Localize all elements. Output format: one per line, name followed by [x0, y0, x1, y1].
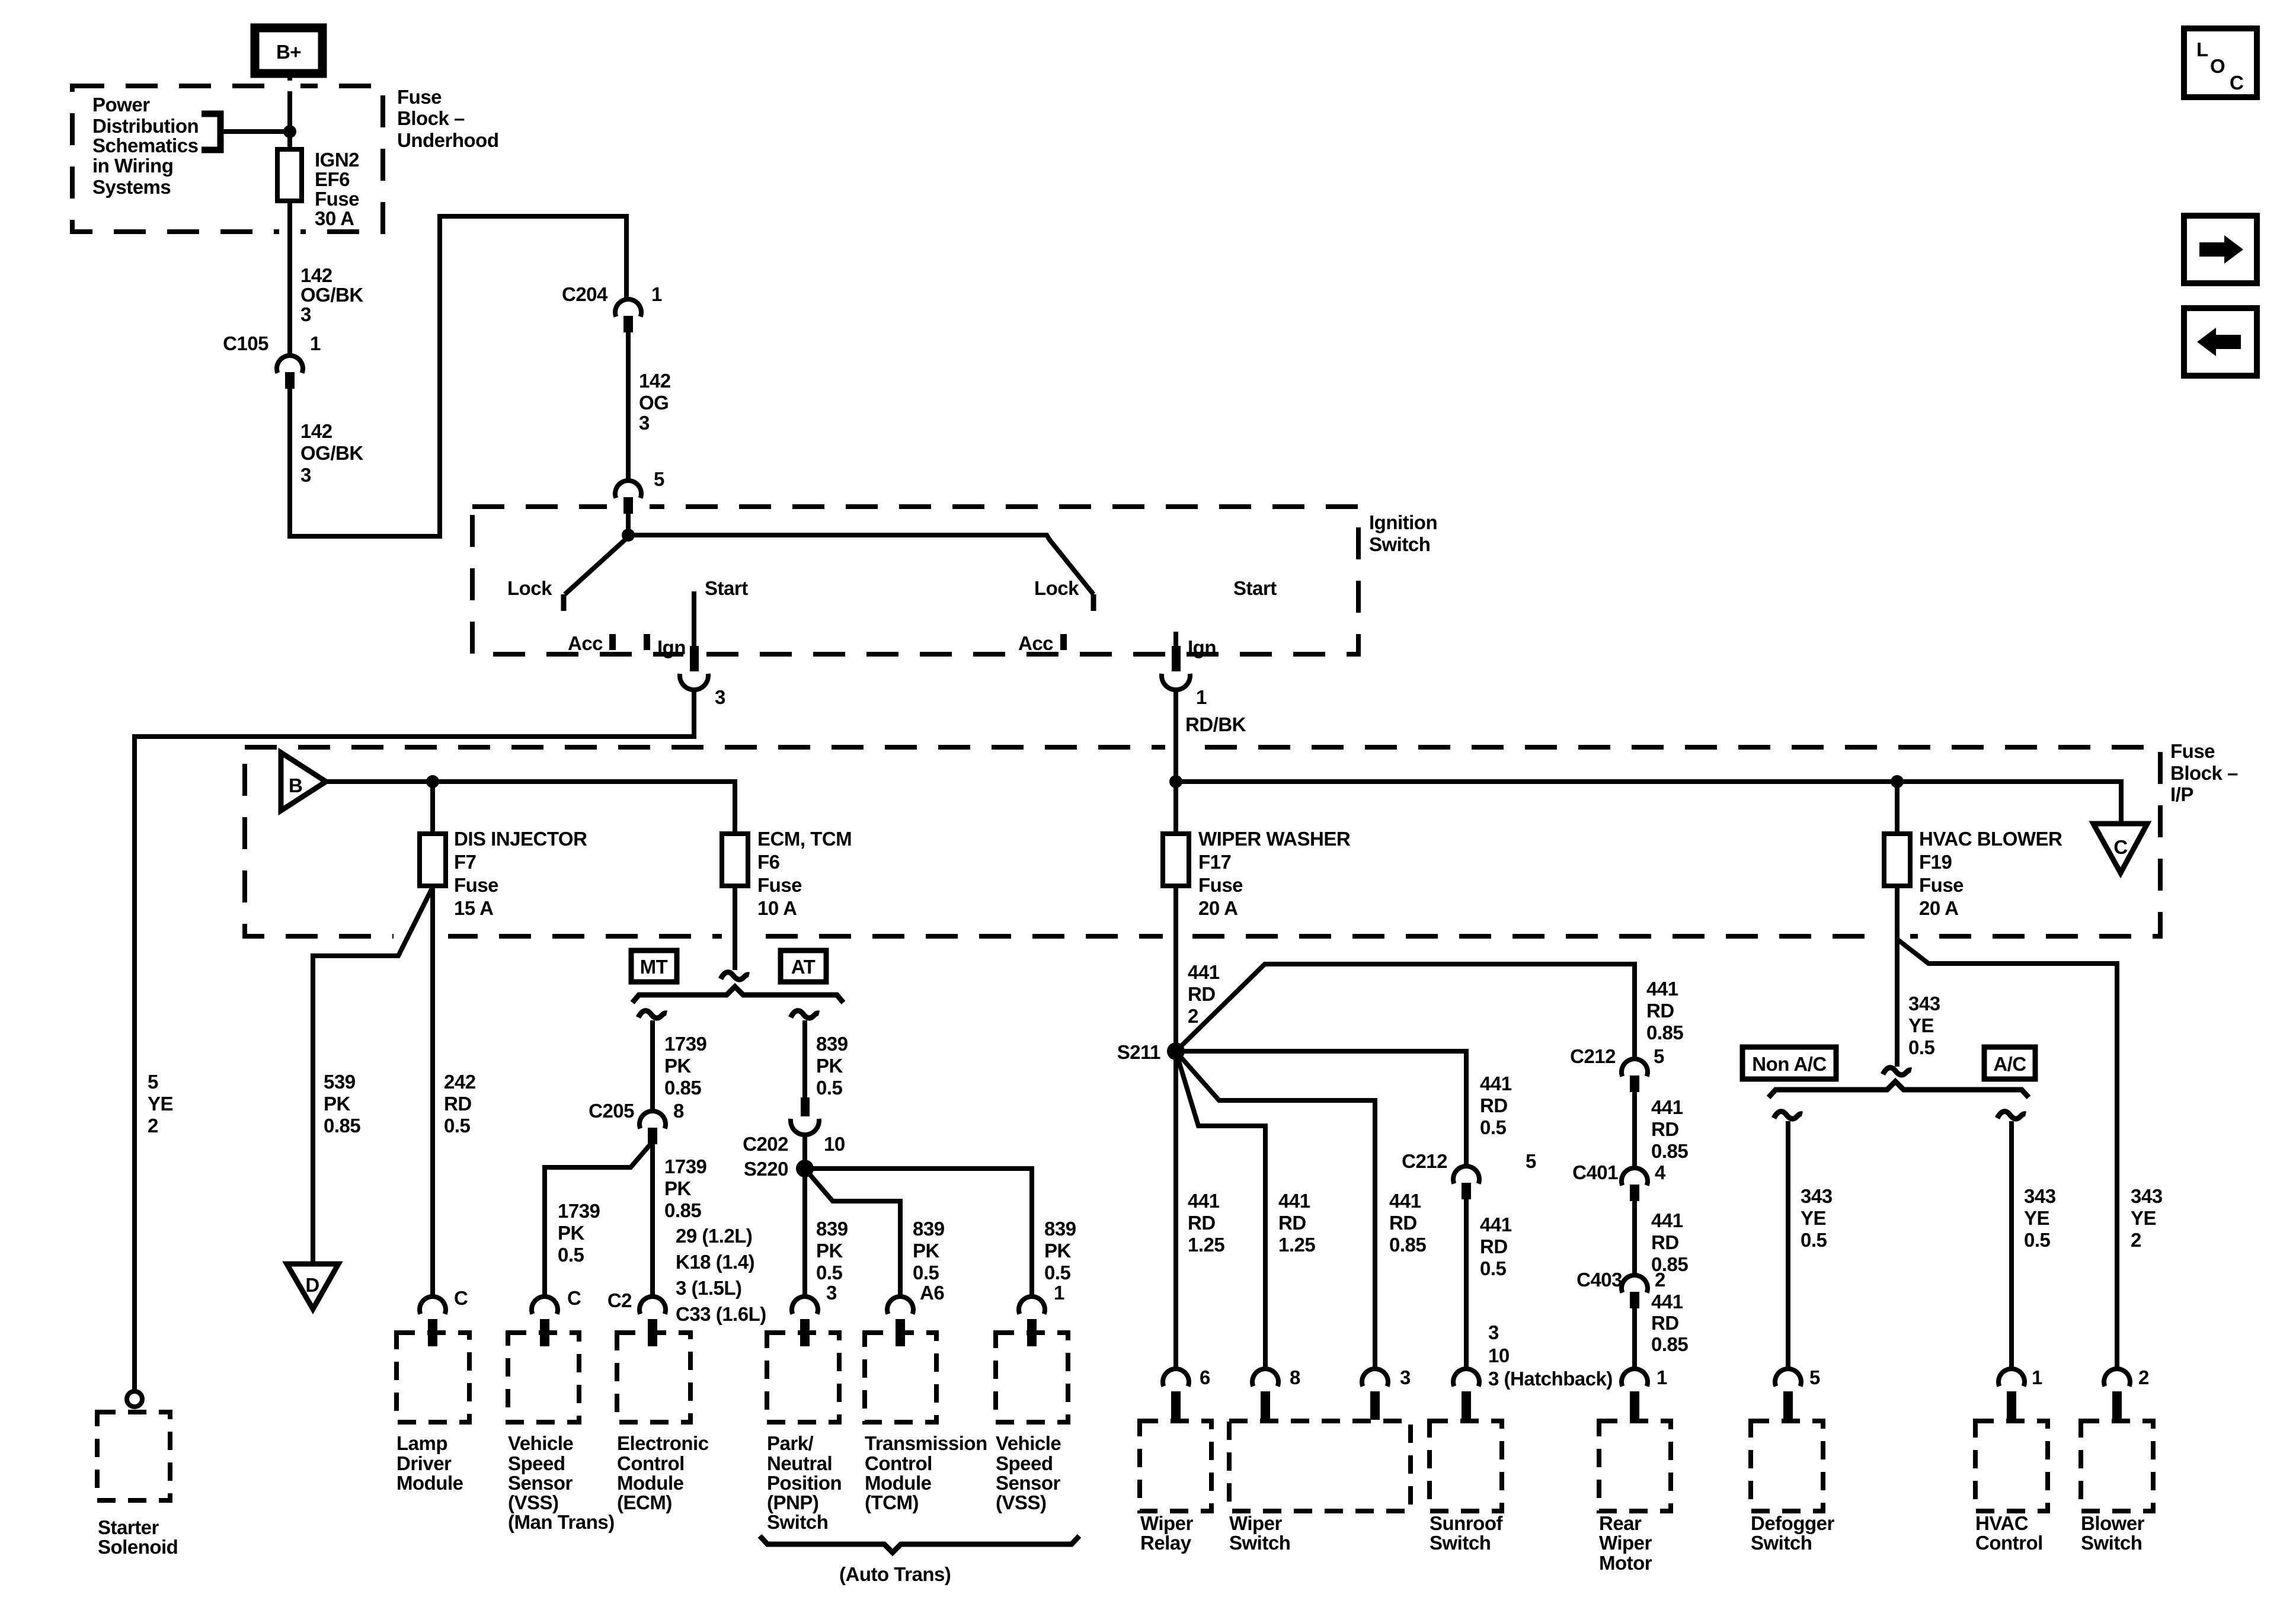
svg-text:B: B	[289, 774, 302, 796]
svg-text:PK: PK	[913, 1240, 940, 1262]
svg-text:441: 441	[1389, 1190, 1421, 1212]
left Acc contact tick	[609, 634, 616, 650]
svg-text:Speed: Speed	[508, 1452, 565, 1474]
svg-text:PK: PK	[816, 1055, 843, 1077]
wire pin5 blade to internal bus	[626, 514, 631, 535]
connector pin 3 below ignition switch	[680, 646, 725, 708]
svg-text:Lamp: Lamp	[396, 1432, 447, 1454]
svg-text:3: 3	[300, 303, 311, 325]
fuse block underhood dashed box	[72, 86, 383, 232]
svg-text:PK: PK	[558, 1222, 585, 1244]
svg-text:F17: F17	[1198, 851, 1231, 873]
svg-text:OG/BK: OG/BK	[300, 284, 363, 306]
svg-text:Wiper: Wiper	[1229, 1512, 1283, 1534]
connector C202 pin 10	[743, 1097, 845, 1155]
junction dot at F17	[1169, 775, 1182, 788]
wire C105 to C204	[290, 216, 626, 536]
connector at HVAC control	[1998, 1369, 2025, 1420]
svg-text:Power: Power	[92, 94, 150, 116]
connector at wiper relay	[1163, 1369, 1189, 1420]
svg-text:0.5: 0.5	[1908, 1036, 1935, 1058]
svg-text:O: O	[2210, 55, 2225, 77]
svg-text:C212: C212	[1402, 1150, 1447, 1172]
connector at sunroof switch	[1453, 1369, 1479, 1420]
svg-text:0.85: 0.85	[1651, 1140, 1688, 1162]
svg-text:0.85: 0.85	[324, 1115, 360, 1137]
option tag box Non A/C	[1742, 1047, 1836, 1079]
white gaps where wires cross ignition switch box	[607, 501, 650, 512]
brace (Auto Trans)	[760, 1536, 1079, 1553]
svg-text:1: 1	[2032, 1366, 2042, 1388]
legend arrow left box	[2184, 308, 2257, 376]
svg-text:1.25: 1.25	[1188, 1234, 1224, 1256]
svg-text:3: 3	[1400, 1366, 1411, 1388]
svg-text:Control: Control	[617, 1452, 685, 1474]
svg-text:242: 242	[444, 1071, 476, 1093]
svg-text:0.5: 0.5	[1480, 1257, 1507, 1279]
wire B+ to fuse IGN2	[287, 73, 292, 149]
svg-text:0.5: 0.5	[558, 1244, 584, 1266]
svg-text:Switch: Switch	[1369, 533, 1430, 555]
wire C204 to ignition switch pin 5	[626, 332, 631, 481]
svg-text:142: 142	[300, 420, 332, 442]
svg-text:3: 3	[1488, 1321, 1499, 1343]
svg-text:RD: RD	[1646, 1000, 1674, 1022]
svg-text:5: 5	[1526, 1150, 1536, 1172]
svg-text:Systems: Systems	[92, 176, 171, 198]
svg-text:Ign: Ign	[1188, 636, 1216, 658]
break hook on Non A/C wire	[1774, 1112, 1802, 1119]
svg-text:839: 839	[913, 1218, 945, 1240]
svg-text:Neutral: Neutral	[767, 1452, 832, 1474]
svg-text:Defogger: Defogger	[1751, 1512, 1835, 1534]
svg-text:6: 6	[1200, 1366, 1210, 1388]
svg-text:Switch: Switch	[2081, 1532, 2142, 1554]
connector pin C at VSS man trans	[532, 1287, 581, 1346]
svg-text:441: 441	[1278, 1190, 1310, 1212]
wire branch F7 to D triangle	[313, 887, 433, 1264]
connector at PNP switch	[792, 1297, 818, 1346]
svg-text:RD: RD	[1651, 1231, 1679, 1253]
splice S211	[1167, 1042, 1185, 1060]
svg-text:441: 441	[1188, 1190, 1220, 1212]
HVAC control dashed box	[1975, 1421, 2048, 1511]
svg-text:Sensor: Sensor	[996, 1472, 1061, 1494]
svg-text:1.25: 1.25	[1278, 1234, 1315, 1256]
option brace Non A/C / A/C	[1769, 1081, 2029, 1097]
svg-text:Block –: Block –	[397, 107, 465, 129]
svg-text:(VSS): (VSS)	[996, 1491, 1047, 1513]
white gaps where wires cross underhood box	[279, 81, 300, 91]
svg-text:F6: F6	[757, 851, 780, 873]
connector C205 pin 8	[589, 1100, 684, 1144]
connector at rear wiper motor	[1622, 1369, 1648, 1420]
junction dot at F19	[1891, 775, 1904, 788]
svg-text:0.5: 0.5	[2024, 1229, 2051, 1251]
wire C212 to sunroof switch	[1464, 1199, 1469, 1370]
svg-text:5: 5	[1654, 1045, 1664, 1067]
VSS auto dashed box	[996, 1333, 1068, 1422]
svg-text:839: 839	[816, 1033, 848, 1055]
svg-text:441: 441	[1651, 1209, 1683, 1231]
svg-text:0.85: 0.85	[1651, 1333, 1688, 1355]
svg-text:Fuse: Fuse	[397, 86, 442, 108]
svg-text:Transmission: Transmission	[865, 1432, 987, 1454]
bracket from note to wire	[202, 114, 220, 150]
svg-text:343: 343	[1801, 1185, 1833, 1207]
svg-text:2: 2	[2138, 1366, 2149, 1388]
rear wiper motor dashed box	[1599, 1421, 1671, 1511]
wire C202 to S220	[802, 1134, 807, 1169]
svg-text:OG/BK: OG/BK	[300, 442, 363, 464]
svg-text:441: 441	[1188, 961, 1220, 983]
svg-text:441: 441	[1480, 1073, 1512, 1094]
svg-text:F7: F7	[454, 851, 477, 873]
svg-text:343: 343	[1908, 993, 1940, 1014]
svg-text:AT: AT	[791, 956, 816, 978]
svg-text:839: 839	[1044, 1218, 1076, 1240]
svg-text:539: 539	[324, 1071, 356, 1093]
svg-text:441: 441	[1651, 1096, 1683, 1118]
wire bracket to B+ feed	[220, 129, 290, 134]
svg-text:Fuse: Fuse	[454, 874, 498, 896]
connector C204 pin 1	[562, 283, 662, 332]
svg-text:Switch: Switch	[767, 1511, 828, 1533]
svg-text:10 A: 10 A	[757, 897, 797, 919]
svg-text:Lock: Lock	[507, 577, 552, 599]
svg-text:Control: Control	[865, 1452, 932, 1474]
white gaps where wires cross I/P fuse block box	[1165, 742, 1187, 753]
svg-text:Acc: Acc	[1018, 632, 1053, 654]
junction dot on B+ feed	[283, 125, 296, 138]
svg-text:A/C: A/C	[1993, 1053, 2026, 1075]
svg-text:C: C	[454, 1287, 468, 1309]
svg-text:(VSS): (VSS)	[508, 1491, 559, 1513]
right Ign contact wire	[1173, 632, 1178, 647]
svg-text:C202: C202	[743, 1133, 788, 1155]
svg-text:(ECM): (ECM)	[617, 1491, 672, 1513]
fuse F6 ECM TCM 10A	[722, 834, 748, 886]
svg-text:1: 1	[310, 332, 321, 354]
wire C205 to C2	[650, 1144, 655, 1298]
svg-text:Sunroof: Sunroof	[1430, 1512, 1503, 1534]
svg-text:(Man Trans): (Man Trans)	[508, 1511, 615, 1533]
svg-text:Electronic: Electronic	[617, 1432, 709, 1454]
wire S220 to TCM pin A6	[807, 1172, 900, 1298]
connector C212 pin 5 (sunroof)	[1402, 1150, 1536, 1199]
connector pin C at lamp driver module	[420, 1287, 468, 1346]
svg-text:142: 142	[639, 370, 671, 392]
svg-text:ECM, TCM: ECM, TCM	[757, 828, 852, 850]
break hook on AT wire	[791, 1011, 819, 1018]
svg-text:RD: RD	[1389, 1212, 1417, 1234]
svg-text:MT: MT	[640, 956, 668, 978]
node D triangle	[287, 1264, 338, 1309]
svg-text:Ign: Ign	[657, 636, 686, 658]
wire A/C option to HVAC control	[2009, 1121, 2014, 1370]
wire pin 1 feed through I/P box edge	[1173, 690, 1178, 782]
wiper switch dashed box	[1229, 1421, 1411, 1511]
svg-text:Speed: Speed	[996, 1452, 1053, 1474]
wire S211 to sunroof C212	[1176, 1051, 1466, 1166]
connector pin 1 below ignition switch	[1162, 646, 1207, 708]
wire Non A/C option to defogger switch	[1786, 1121, 1790, 1370]
svg-text:0.85: 0.85	[1389, 1234, 1426, 1256]
wire F6 to MT/AT option break	[733, 886, 737, 970]
wire S220 to VSS auto pin 1	[805, 1169, 1032, 1298]
svg-text:20 A: 20 A	[1198, 897, 1237, 919]
svg-text:Switch: Switch	[1430, 1532, 1491, 1554]
svg-text:441: 441	[1651, 1291, 1683, 1313]
svg-text:S220: S220	[744, 1158, 788, 1180]
svg-text:C105: C105	[223, 332, 268, 354]
svg-text:EF6: EF6	[315, 168, 350, 190]
svg-text:Fuse: Fuse	[757, 874, 802, 896]
svg-text:S211: S211	[1117, 1041, 1160, 1063]
PNP switch dashed box	[767, 1333, 839, 1422]
svg-text:2: 2	[1655, 1269, 1665, 1291]
svg-text:Schematics: Schematics	[92, 135, 198, 156]
connector pin 5 at ignition switch	[615, 468, 664, 514]
wire F7 to lamp driver module	[430, 886, 435, 1298]
svg-text:343: 343	[2024, 1185, 2056, 1207]
svg-text:0.5: 0.5	[1480, 1116, 1507, 1138]
svg-text:5: 5	[654, 468, 664, 490]
svg-text:Acc: Acc	[568, 632, 603, 654]
svg-text:142: 142	[300, 264, 332, 286]
svg-text:Fuse: Fuse	[1919, 874, 1964, 896]
junction dot at F7	[426, 775, 439, 788]
svg-text:Fuse: Fuse	[315, 188, 359, 210]
svg-text:YE: YE	[1908, 1014, 1934, 1036]
svg-text:29 (1.2L): 29 (1.2L)	[676, 1225, 752, 1247]
svg-text:RD: RD	[1188, 983, 1216, 1005]
svg-text:Module: Module	[617, 1472, 684, 1494]
option brace MT/AT	[632, 987, 843, 1003]
VSS man trans dashed box	[508, 1333, 579, 1422]
svg-text:441: 441	[1480, 1214, 1512, 1235]
svg-text:C205: C205	[589, 1100, 634, 1122]
svg-text:Vehicle: Vehicle	[508, 1432, 573, 1454]
ignition switch dashed box	[472, 507, 1358, 654]
svg-text:RD/BK: RD/BK	[1185, 713, 1246, 735]
svg-text:Wiper: Wiper	[1599, 1532, 1652, 1554]
svg-text:(Auto Trans): (Auto Trans)	[839, 1563, 951, 1585]
svg-text:YE: YE	[2131, 1207, 2156, 1229]
splice S220	[796, 1160, 814, 1177]
svg-text:3: 3	[639, 412, 650, 434]
svg-text:1739: 1739	[664, 1156, 707, 1177]
svg-text:(PNP): (PNP)	[767, 1491, 818, 1513]
wire right bus ignition feed to C triangle	[1176, 782, 2121, 824]
svg-text:PK: PK	[1044, 1240, 1072, 1262]
svg-text:Motor: Motor	[1599, 1552, 1652, 1574]
svg-text:10: 10	[824, 1133, 845, 1155]
B+ battery terminal	[255, 28, 322, 73]
svg-text:DIS INJECTOR: DIS INJECTOR	[454, 828, 587, 850]
svg-text:3 (Hatchback): 3 (Hatchback)	[1488, 1368, 1613, 1390]
svg-text:0.85: 0.85	[664, 1077, 701, 1099]
starter solenoid dashed box	[97, 1412, 170, 1500]
svg-text:343: 343	[2131, 1185, 2163, 1207]
wiper arm to left Lock contact	[565, 537, 628, 594]
svg-text:Blower: Blower	[2081, 1512, 2145, 1534]
LOC legend box	[2184, 28, 2257, 97]
svg-text:Module: Module	[396, 1472, 463, 1494]
wire pin 1 to I/P fuse block	[1173, 690, 1178, 782]
svg-text:Module: Module	[865, 1472, 932, 1494]
svg-text:C212: C212	[1570, 1045, 1616, 1067]
svg-text:Distribution: Distribution	[92, 115, 199, 137]
svg-text:HVAC BLOWER: HVAC BLOWER	[1919, 828, 2062, 850]
svg-text:WIPER WASHER: WIPER WASHER	[1198, 828, 1351, 850]
connector C105 pin 1	[223, 332, 321, 389]
svg-text:Start: Start	[1233, 577, 1277, 599]
wire C403 to rear wiper motor	[1632, 1308, 1637, 1370]
svg-text:RD: RD	[1651, 1118, 1679, 1140]
blower switch dashed box	[2081, 1421, 2153, 1511]
svg-text:3: 3	[826, 1282, 837, 1304]
node B triangle	[281, 753, 326, 811]
legend arrow right box	[2184, 216, 2257, 283]
svg-text:4: 4	[1655, 1161, 1666, 1183]
svg-text:5: 5	[148, 1071, 158, 1093]
svg-text:HVAC: HVAC	[1975, 1512, 2028, 1534]
svg-text:3: 3	[715, 686, 725, 708]
defogger switch dashed box	[1751, 1421, 1823, 1511]
connector C212 pin 5 (rear wiper chain)	[1570, 1045, 1664, 1092]
left Ign contact tick	[644, 634, 650, 650]
svg-text:Control: Control	[1975, 1532, 2043, 1554]
break symbol on F6 wire	[721, 972, 749, 980]
wire pin 3 to starter solenoid run	[135, 690, 694, 1392]
connector C2 at ECM	[607, 1289, 666, 1346]
svg-text:RD: RD	[444, 1093, 472, 1115]
connector at blower switch	[2104, 1369, 2130, 1420]
svg-text:D: D	[305, 1274, 319, 1296]
svg-text:5: 5	[1809, 1366, 1820, 1388]
wire S211 to wiper relay pin 6	[1173, 1051, 1178, 1370]
svg-text:Rear: Rear	[1599, 1512, 1642, 1534]
svg-text:Driver: Driver	[396, 1452, 452, 1474]
ECM dashed box	[617, 1333, 690, 1422]
svg-text:Starter: Starter	[98, 1516, 159, 1538]
svg-text:8: 8	[1290, 1366, 1300, 1388]
wire S211 to rear wiper chain	[1176, 964, 1635, 1059]
svg-text:Park/: Park/	[767, 1432, 814, 1454]
svg-text:10: 10	[1488, 1345, 1510, 1366]
svg-text:0.85: 0.85	[1646, 1022, 1683, 1044]
wire ignition feed to F17	[1173, 782, 1178, 834]
wire MT option to C205	[650, 1020, 655, 1111]
wire ignition internal bus	[628, 535, 1093, 594]
fuse F17 WIPER WASHER 20A	[1163, 834, 1189, 886]
break hook on MT wire	[638, 1011, 667, 1018]
wire F17 to S211	[1173, 886, 1178, 1051]
svg-text:2: 2	[1188, 1005, 1198, 1027]
svg-text:15 A: 15 A	[454, 897, 493, 919]
wire S220 to PNP switch pin 3	[802, 1169, 807, 1298]
svg-text:B+: B+	[276, 41, 301, 63]
MT option tag box	[631, 950, 677, 982]
svg-text:OG: OG	[639, 392, 669, 414]
svg-text:Relay: Relay	[1140, 1532, 1192, 1554]
wire bus to F19	[1895, 782, 1900, 834]
svg-text:Fuse: Fuse	[1198, 874, 1243, 896]
svg-text:PK: PK	[664, 1055, 692, 1077]
svg-text:Underhood: Underhood	[397, 129, 498, 151]
svg-text:C204: C204	[562, 283, 608, 305]
break symbol on F19 wire	[1883, 1068, 1911, 1075]
svg-text:PK: PK	[664, 1177, 692, 1199]
svg-text:K18 (1.4): K18 (1.4)	[676, 1251, 754, 1273]
break hook on A/C wire	[1997, 1112, 2026, 1119]
svg-text:0.85: 0.85	[664, 1199, 701, 1221]
svg-text:1: 1	[1657, 1366, 1667, 1388]
wire C401 to C403	[1632, 1201, 1637, 1275]
svg-text:Wiper: Wiper	[1140, 1512, 1194, 1534]
wire S211 to wiper switch pin 3	[1178, 1054, 1375, 1370]
svg-text:0.5: 0.5	[1044, 1262, 1071, 1283]
connector at TCM	[887, 1297, 913, 1346]
svg-text:Non A/C: Non A/C	[1752, 1053, 1826, 1075]
wiper relay dashed box	[1140, 1421, 1211, 1511]
svg-text:in Wiring: in Wiring	[92, 155, 173, 177]
svg-text:839: 839	[816, 1218, 848, 1240]
AT option tag box	[781, 950, 826, 982]
wire C212 to C401	[1632, 1092, 1637, 1168]
svg-text:0.5: 0.5	[1801, 1229, 1827, 1251]
svg-text:1: 1	[1054, 1282, 1064, 1304]
wire branch F19 to blower switch	[1897, 939, 2117, 1370]
wire S211 to wiper switch pin 8	[1177, 1055, 1265, 1370]
svg-text:I/P: I/P	[2170, 783, 2193, 805]
svg-text:2: 2	[148, 1115, 158, 1137]
svg-text:Switch: Switch	[1751, 1532, 1812, 1554]
wire fuse IGN2 to C105	[287, 201, 292, 356]
svg-text:1739: 1739	[558, 1200, 600, 1222]
svg-text:0.5: 0.5	[816, 1077, 843, 1099]
svg-text:Vehicle: Vehicle	[996, 1432, 1061, 1454]
svg-text:0.5: 0.5	[816, 1262, 843, 1283]
fuse F19 HVAC BLOWER 20A	[1884, 834, 1910, 886]
svg-text:Sensor: Sensor	[508, 1472, 573, 1494]
connector C403 pin 2	[1576, 1269, 1648, 1308]
svg-text:RD: RD	[1278, 1212, 1306, 1234]
svg-text:1: 1	[651, 283, 662, 305]
svg-text:C: C	[2230, 72, 2243, 94]
TCM dashed box	[865, 1333, 936, 1422]
svg-text:PK: PK	[324, 1093, 351, 1115]
wire bus to F7	[430, 782, 435, 834]
wire AT option to C202	[802, 1020, 807, 1099]
svg-text:YE: YE	[1801, 1207, 1826, 1229]
svg-text:C: C	[2113, 836, 2127, 858]
svg-text:3 (1.5L): 3 (1.5L)	[676, 1277, 742, 1299]
svg-text:IGN2: IGN2	[315, 149, 359, 171]
left Lock contact tick	[561, 594, 567, 611]
svg-text:0.5: 0.5	[913, 1262, 939, 1283]
connector at wiper switch pin 3	[1362, 1369, 1388, 1420]
connector C401 pin 4	[1572, 1161, 1648, 1201]
svg-text:Ignition: Ignition	[1369, 511, 1437, 533]
wire F19 to Non A/C / A/C split	[1895, 886, 1900, 1067]
svg-text:3: 3	[300, 464, 311, 486]
svg-text:441: 441	[1646, 978, 1678, 1000]
svg-text:C33 (1.6L): C33 (1.6L)	[676, 1303, 766, 1325]
svg-text:Block –: Block –	[2170, 762, 2238, 784]
svg-text:RD: RD	[1480, 1235, 1508, 1257]
